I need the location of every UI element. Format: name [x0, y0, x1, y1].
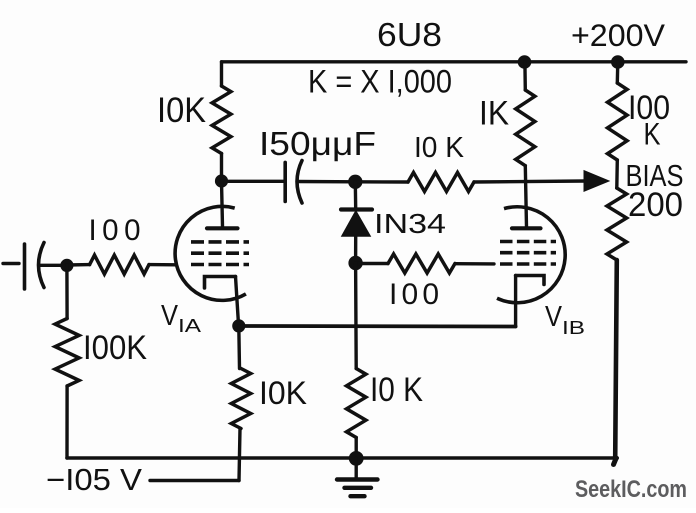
diode 1N34 cathode bar	[341, 207, 372, 211]
tube V1A cathode	[205, 277, 236, 289]
wire 100 to V1A grid	[149, 263, 176, 267]
svg-text:I0 K: I0 K	[414, 132, 465, 164]
svg-text:IB: IB	[562, 318, 585, 338]
tube V1A envelope arc	[175, 206, 246, 300]
svg-text:I0K: I0K	[157, 91, 206, 130]
resistor 1K	[523, 62, 527, 90]
input capacitor curved plate	[39, 243, 45, 288]
wire overshoot at bottom-right corner	[614, 458, 617, 465]
svg-text:IK: IK	[479, 95, 509, 133]
svg-text:I00: I00	[389, 278, 439, 311]
wire input cap to node D	[40, 264, 67, 267]
wire 100K to bottom wire	[65, 386, 68, 458]
ground symbol	[355, 458, 358, 478]
node C junction dot (diode anode / 100 ohm)	[348, 256, 362, 270]
node B junction dot (cap / diode / R10K)	[348, 175, 362, 189]
svg-text:I0K: I0K	[259, 375, 307, 411]
resistor 100 (input grid stopper)	[67, 263, 90, 267]
resistor 10K (V1A cathode to -105V)	[237, 326, 241, 369]
wire node B to 10K horizontal	[355, 180, 408, 184]
wire capacitor to node B	[298, 180, 356, 184]
wire -105V rail	[150, 479, 239, 482]
diode 1N34 lead from node B	[354, 182, 358, 210]
tube V1A plate bar	[207, 226, 238, 230]
wire node C to 100 ohm	[356, 262, 388, 265]
wire node A to capacitor	[222, 180, 285, 183]
resistor 100 (V1B grid)	[388, 254, 455, 273]
resistor 10K (cathode of V1B to ground)	[347, 369, 366, 438]
svg-text:I50μμF: I50μμF	[259, 125, 376, 162]
resistor 10K (top left plate load V1A)	[212, 86, 231, 154]
wire node C down to 10K	[354, 263, 358, 369]
wire V1B cathode lead up	[514, 276, 517, 327]
arrow wiper head	[584, 171, 609, 192]
resistor 100K (input to -105V rail)	[55, 319, 79, 387]
wire 100K to 200	[615, 160, 619, 188]
tube V1B plate bar	[512, 226, 541, 230]
node +200V junction dot	[611, 55, 625, 69]
resistor 100K (upper part of bias pot)	[616, 62, 620, 83]
tube V1B envelope arc	[497, 207, 565, 303]
svg-text:−I05 V: −I05 V	[46, 463, 143, 497]
wire top supply rail	[222, 60, 687, 63]
svg-text:V: V	[161, 300, 179, 332]
node ground junction dot	[349, 451, 364, 466]
svg-text:IN34: IN34	[374, 208, 446, 239]
wire 100 ohm to V1B grid	[455, 262, 494, 266]
wire node D down to 100K	[65, 265, 69, 318]
svg-text:K = X I,000: K = X I,000	[308, 64, 452, 100]
wire bottom ground rail	[67, 456, 617, 460]
node A junction dot (V1A plate / cap)	[215, 174, 228, 187]
capacitor C 150uuF curved plate	[297, 161, 302, 204]
svg-text:SeekIC.com: SeekIC.com	[575, 476, 687, 503]
node D junction dot (input node)	[60, 259, 73, 272]
input stub wire	[3, 262, 19, 265]
tube V1B grid dashes	[500, 242, 556, 265]
wire cathode bus E to V1B cathode	[239, 324, 516, 328]
wire diode to node C	[354, 236, 358, 263]
tube V1B cathode	[516, 276, 544, 285]
svg-text:I00K: I00K	[83, 329, 147, 367]
svg-text:6U8: 6U8	[377, 17, 442, 54]
wire 1K bottom to V1B plate	[525, 166, 526, 227]
wire V1A cathode lead to node E	[236, 277, 239, 326]
resistor 10K (horizontal, to bias wiper)	[408, 173, 474, 192]
svg-text:IA: IA	[178, 316, 201, 336]
node top of 1K junction dot	[518, 55, 532, 69]
diode 1N34 triangle	[342, 211, 370, 236]
capacitor C 150uuF left plate	[283, 162, 287, 201]
svg-text:I0 K: I0 K	[370, 371, 423, 409]
svg-text:I00: I00	[89, 214, 141, 247]
svg-text:+200V: +200V	[571, 17, 665, 53]
tube V1A grid dashes	[191, 242, 249, 265]
wire top-left corner down to R 10K	[220, 62, 223, 86]
wire 10K to arrow	[474, 181, 586, 182]
svg-text:K: K	[644, 116, 661, 152]
resistor 200 (lower part of bias pot)	[607, 188, 627, 260]
wire 200 bottom down right side	[615, 260, 617, 459]
tube V1A plate lead	[222, 182, 223, 227]
wire 10K bottom lead to node A	[220, 154, 223, 182]
svg-text:V: V	[545, 301, 563, 333]
wire 10K to ground node	[355, 438, 358, 459]
input capacitor left plate	[23, 244, 27, 289]
node E junction dot (V1A cathode)	[232, 319, 245, 332]
svg-text:200: 200	[628, 186, 683, 224]
